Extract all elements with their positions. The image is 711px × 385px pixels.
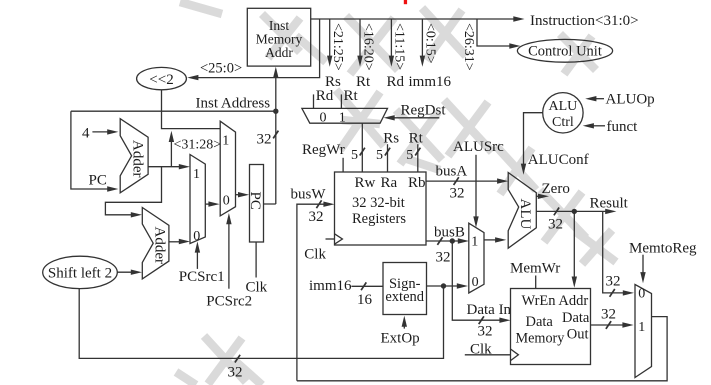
watermark cluster top-left-center — [180, 2, 326, 62]
control ALUSrc — [453, 139, 504, 227]
red mark top — [404, 0, 407, 4]
svg-text:5: 5 — [376, 148, 383, 163]
alu control circle U — [543, 93, 583, 133]
wire <25:0> to shifter — [187, 19, 319, 80]
watermark cluster top-mid — [346, 8, 466, 74]
watermark cluster right — [540, 190, 616, 264]
control MemtoReg — [629, 241, 697, 284]
svg-text:Clk: Clk — [304, 246, 326, 262]
wire pcsrc1 output — [205, 201, 219, 206]
control RegDst — [384, 102, 447, 120]
node inst address junction — [273, 109, 278, 114]
svg-text:Adder: Adder — [130, 140, 146, 178]
svg-text:Clk: Clk — [246, 279, 268, 295]
svg-text:1: 1 — [222, 133, 229, 148]
control ALUOp — [585, 92, 654, 108]
svg-text:Data: Data — [526, 314, 554, 330]
svg-text:Out: Out — [567, 326, 589, 342]
wire PC out to inst address — [257, 111, 279, 204]
svg-text:Memory: Memory — [516, 331, 566, 347]
svg-text:1: 1 — [638, 320, 645, 335]
svg-text:MemtoReg: MemtoReg — [629, 241, 697, 257]
svg-text:32: 32 — [450, 185, 465, 201]
mux ALUSrc — [469, 223, 484, 293]
svg-text:Rt: Rt — [409, 131, 424, 147]
field drop Rd <11:15> — [387, 19, 407, 90]
wire adder2 output — [169, 239, 190, 244]
svg-text:32: 32 — [548, 217, 563, 233]
svg-text:Rd: Rd — [316, 88, 334, 104]
watermark cluster center — [396, 110, 442, 170]
control PCSrc2 — [206, 213, 252, 309]
svg-text:Ra: Ra — [381, 175, 398, 191]
shifter <<2 — [137, 67, 187, 89]
svg-text:PCSrc2: PCSrc2 — [206, 293, 252, 309]
wire result to mux0 — [603, 211, 634, 296]
svg-text:16: 16 — [357, 292, 373, 308]
mux PCSrc2 — [220, 121, 235, 216]
wire Rd stub — [314, 88, 334, 108]
svg-text:Registers: Registers — [352, 211, 406, 227]
svg-text:1: 1 — [471, 234, 478, 249]
node result junction — [572, 209, 577, 214]
svg-text:ExtOp: ExtOp — [381, 330, 420, 346]
wire result to memory Addr — [572, 211, 577, 287]
watermark cluster top-right — [560, 34, 596, 74]
svg-text:32: 32 — [606, 274, 621, 290]
wire PC clk — [246, 242, 268, 295]
svg-text:PC: PC — [89, 173, 107, 189]
svg-text:32: 32 — [601, 307, 616, 323]
wire Rt stub — [341, 88, 358, 108]
svg-text:0: 0 — [472, 275, 479, 290]
wire ALUConf — [521, 113, 589, 175]
svg-text:<21:25>: <21:25> — [330, 23, 345, 71]
svg-text:5: 5 — [406, 148, 413, 163]
svg-text:Addr: Addr — [265, 45, 293, 60]
svg-text:Rs: Rs — [383, 131, 399, 147]
registers file box — [335, 172, 427, 245]
svg-text:ALUSrc: ALUSrc — [453, 139, 504, 155]
wire Rt to Rb — [406, 131, 423, 172]
control funct — [583, 119, 638, 135]
wire memory clk — [465, 342, 519, 361]
svg-text:<11:15>: <11:15> — [392, 23, 407, 70]
mux RegDst — [302, 108, 388, 125]
wire mux output return busW — [297, 317, 667, 381]
svg-text:Inst Address: Inst Address — [196, 96, 271, 112]
svg-text:ALUConf: ALUConf — [528, 152, 589, 168]
mux MemtoReg — [635, 285, 652, 378]
wire <31:28> tap — [169, 131, 222, 167]
svg-text:<<2: <<2 — [149, 72, 173, 88]
wire Rs to Ra — [376, 131, 399, 172]
svg-text:Instruction<31:0>: Instruction<31:0> — [530, 13, 639, 29]
wire Result — [536, 195, 628, 232]
svg-text:0: 0 — [638, 286, 645, 301]
wire pcsrc2 output — [236, 192, 250, 197]
svg-text:Rd: Rd — [387, 74, 405, 90]
watermark cluster bottom-left — [176, 336, 262, 385]
mux PCSrc1 — [190, 155, 205, 245]
wire constant 4 — [82, 126, 118, 142]
field drop op <26:31> to control unit — [461, 19, 521, 71]
svg-text:RegDst: RegDst — [401, 102, 447, 118]
watermark cluster upper-center — [336, 90, 384, 150]
sign extend box — [383, 263, 427, 315]
watermark cluster mid-right — [444, 100, 536, 194]
adder A2 (branch) — [142, 208, 169, 279]
svg-text:Rw: Rw — [355, 175, 376, 191]
wire ALUSrc mux out — [484, 237, 506, 242]
instruction memory box — [247, 8, 310, 66]
field drop Rs <21:25> — [325, 19, 345, 90]
wire PC feedback left — [71, 111, 119, 192]
svg-text:1: 1 — [193, 167, 200, 182]
wire busW — [291, 187, 335, 381]
field drop Rt <16:20> — [356, 19, 375, 90]
wire busA — [426, 164, 508, 202]
svg-text:0: 0 — [193, 229, 200, 244]
svg-text:Rt: Rt — [344, 88, 359, 104]
svg-text:32: 32 — [309, 209, 324, 225]
data memory box — [511, 289, 591, 365]
svg-text:Control Unit: Control Unit — [528, 44, 602, 60]
wire adder1 output — [148, 164, 190, 169]
wire imm16 into sign extend — [309, 278, 383, 308]
wire Zero — [536, 181, 570, 199]
svg-text:MemWr: MemWr — [510, 261, 560, 277]
svg-text:PC: PC — [247, 192, 263, 210]
svg-text:funct: funct — [607, 119, 639, 135]
control MemWr — [510, 261, 560, 289]
register PC — [247, 165, 264, 243]
wire RegDst mux out to Rw — [351, 123, 365, 172]
svg-text:0: 0 — [320, 111, 327, 126]
svg-text:imm16: imm16 — [409, 74, 452, 90]
field drop imm16 <0:15> — [409, 19, 452, 90]
wire jump address from shifter — [162, 90, 221, 129]
instruction bus wire — [311, 13, 639, 29]
control ExtOp — [381, 316, 420, 347]
svg-text:32: 32 — [228, 364, 243, 380]
svg-text:<25:0>: <25:0> — [200, 61, 242, 77]
svg-text:5: 5 — [351, 148, 358, 163]
svg-text:WrEn Addr: WrEn Addr — [522, 293, 589, 309]
svg-text:PCSrc1: PCSrc1 — [179, 269, 225, 285]
wire shift left 2 output — [117, 270, 142, 275]
inst address wire — [71, 96, 276, 112]
svg-text:Result: Result — [590, 195, 629, 211]
svg-text:<0:15>: <0:15> — [423, 23, 438, 64]
svg-text:ALU: ALU — [517, 199, 533, 230]
svg-text:0: 0 — [223, 193, 230, 208]
control RegWr — [302, 142, 345, 172]
svg-text:busA: busA — [436, 164, 468, 180]
svg-text:<16:20>: <16:20> — [360, 23, 375, 71]
wire sign extend out — [427, 283, 469, 288]
svg-text:32 32-bit: 32 32-bit — [352, 195, 405, 211]
svg-text:1: 1 — [339, 111, 346, 126]
svg-text:ALUOp: ALUOp — [606, 92, 655, 108]
svg-text:ALU: ALU — [549, 99, 578, 114]
svg-text:Adder: Adder — [151, 227, 167, 265]
wire branch offset return to shift left 2 — [79, 286, 443, 380]
wire busB — [426, 224, 469, 265]
wire busB to data in — [452, 241, 511, 339]
svg-text:Rt: Rt — [356, 74, 371, 90]
shift left 2 ellipse — [43, 256, 118, 288]
svg-text:32: 32 — [478, 323, 493, 339]
ALU — [508, 173, 536, 249]
control PCSrc1 — [179, 241, 225, 284]
node sign extend junction — [441, 283, 446, 288]
svg-text:imm16: imm16 — [309, 278, 352, 294]
wire PC+4 step to adder2 — [105, 167, 161, 218]
svg-text:Rb: Rb — [408, 175, 426, 191]
svg-text:32: 32 — [257, 132, 272, 148]
svg-text:<26:31>: <26:31> — [461, 23, 476, 71]
svg-text:32: 32 — [436, 250, 451, 266]
svg-text:busB: busB — [434, 224, 465, 240]
adder A1 (PC+4) — [120, 119, 148, 193]
svg-text:extend: extend — [385, 289, 424, 305]
wire Data Out — [591, 307, 634, 329]
svg-text:<31:28>: <31:28> — [174, 138, 222, 153]
node busB junction — [450, 238, 455, 243]
registers clk wedge — [304, 234, 342, 262]
svg-text:Shift left 2: Shift left 2 — [48, 266, 112, 282]
svg-text:Data In: Data In — [467, 302, 512, 318]
inst address vertical wire into memory — [273, 67, 278, 112]
control unit — [517, 39, 612, 62]
svg-text:4: 4 — [82, 126, 90, 142]
svg-text:Zero: Zero — [542, 181, 570, 197]
svg-text:Data: Data — [562, 310, 590, 326]
svg-text:Ctrl: Ctrl — [552, 115, 574, 130]
svg-text:RegWr: RegWr — [302, 142, 345, 158]
